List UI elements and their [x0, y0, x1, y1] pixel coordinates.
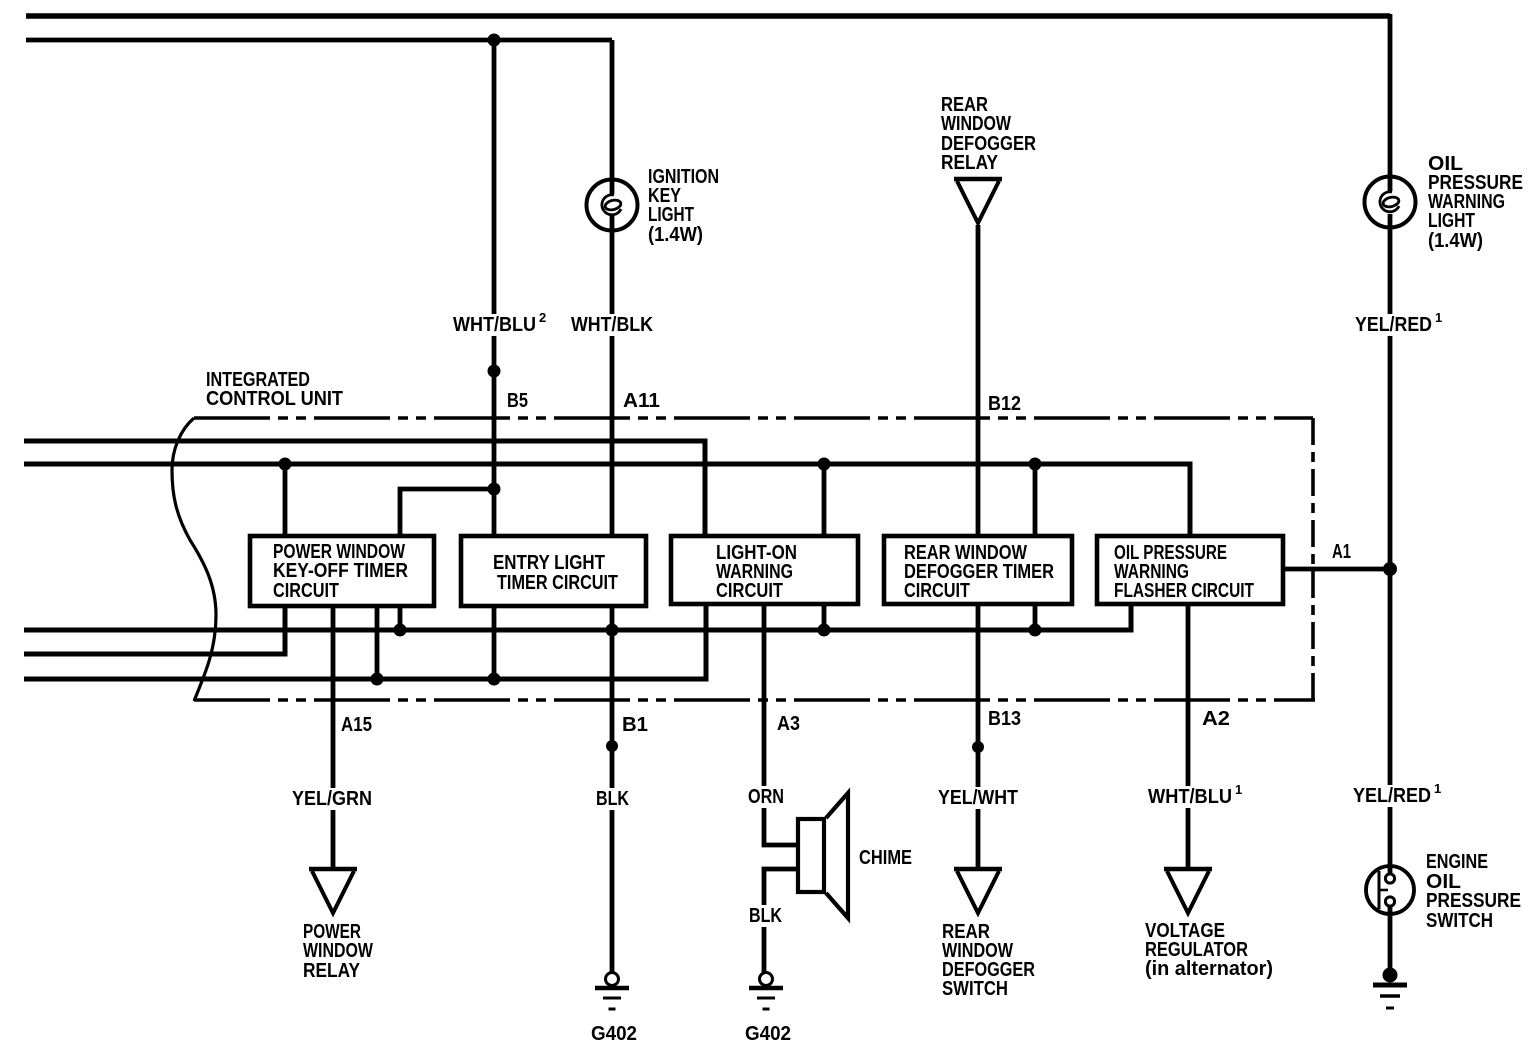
svg-text:TIMER CIRCUIT: TIMER CIRCUIT — [497, 572, 618, 594]
node line E / power window — [371, 673, 384, 686]
svg-text:B12: B12 — [988, 393, 1021, 415]
svg-text:PRESSURE: PRESSURE — [1426, 890, 1521, 912]
svg-text:1: 1 — [1235, 782, 1242, 797]
wire A1 oil pressure box to main vertical — [1285, 567, 1390, 572]
label wire BLK (chime) — [746, 905, 785, 927]
svg-text:YEL/WHT: YEL/WHT — [938, 787, 1018, 809]
ground G402 right (chime BLK) — [749, 973, 783, 1010]
wire WHT/BLU B5 — [492, 40, 497, 489]
switch engine oil pressure — [1366, 866, 1414, 914]
JUNCTION-DOTS — [279, 34, 1398, 754]
wire line B tap to power window box — [283, 464, 288, 536]
wire A3 light-on box to chime — [764, 606, 798, 845]
svg-text:G402: G402 — [591, 1023, 637, 1045]
lamp oil pressure warning light — [1365, 177, 1416, 228]
wire power window box to line E — [375, 606, 380, 679]
wire power window box to line C — [398, 606, 403, 630]
box power window key-off timer circuit — [250, 536, 434, 606]
svg-text:SWITCH: SWITCH — [942, 978, 1008, 1000]
svg-text:CIRCUIT: CIRCUIT — [716, 580, 783, 602]
wire YEL/RED main vertical — [1388, 14, 1393, 191]
label wire WHT/BLU 1 — [1145, 786, 1245, 808]
svg-text:A3: A3 — [777, 713, 800, 735]
node line C / B1 — [606, 624, 619, 637]
node line C / defogger — [1029, 624, 1042, 637]
node B5 jog — [488, 483, 501, 496]
wire line B tap to defogger timer box — [1033, 464, 1038, 536]
svg-text:(in alternator): (in alternator) — [1145, 958, 1273, 980]
svg-text:CIRCUIT: CIRCUIT — [904, 580, 970, 602]
svg-text:WHT/BLU: WHT/BLU — [1148, 786, 1232, 808]
box entry light timer circuit — [461, 536, 646, 606]
ICU boundary right dash-dot — [1311, 418, 1315, 700]
svg-text:A1: A1 — [1332, 541, 1351, 563]
node line C / light-on — [818, 624, 831, 637]
svg-text:CIRCUIT: CIRCUIT — [273, 580, 339, 602]
wire B5 to entry light box — [492, 489, 497, 536]
svg-text:KEY-OFF TIMER: KEY-OFF TIMER — [273, 560, 408, 582]
connector triangle power window relay — [309, 869, 357, 913]
svg-text:B5: B5 — [507, 390, 528, 412]
node A1 on main vertical — [1383, 562, 1397, 576]
node line C / power window — [394, 624, 407, 637]
svg-text:CONTROL UNIT: CONTROL UNIT — [206, 388, 343, 410]
svg-text:SWITCH: SWITCH — [1426, 910, 1493, 932]
wire WHT/BLK ignition key light — [610, 40, 615, 194]
connector triangle rear window defogger switch — [954, 869, 1002, 913]
wire bus line D — [24, 606, 285, 654]
svg-text:1: 1 — [1435, 310, 1442, 325]
chime speaker — [798, 793, 848, 918]
svg-text:YEL/RED: YEL/RED — [1355, 314, 1432, 336]
INTEGRATED-CONTROL-UNIT-BOUNDARY — [172, 418, 1315, 701]
svg-text:BLK: BLK — [596, 788, 629, 810]
wire chime to ground BLK — [764, 869, 798, 972]
svg-text:RELAY: RELAY — [303, 960, 361, 982]
ground engine oil pressure switch — [1373, 968, 1407, 1008]
svg-text:CHIME: CHIME — [859, 847, 912, 869]
node line E / entry light — [488, 673, 501, 686]
wire line B tap to light-on box — [822, 464, 827, 536]
connector triangle voltage regulator — [1164, 869, 1212, 913]
wire B12 relay to defogger timer box — [976, 225, 981, 535]
ICU boundary top dash-dot — [194, 416, 1313, 420]
svg-text:ENTRY LIGHT: ENTRY LIGHT — [493, 552, 605, 574]
svg-text:RELAY: RELAY — [941, 152, 999, 174]
svg-text:G402: G402 — [745, 1023, 791, 1045]
wire light-on box to line C — [822, 606, 827, 630]
label wire YEL/GRN — [289, 788, 375, 810]
wire B13 defogger timer box to switch — [976, 606, 981, 868]
box rear window defogger timer circuit — [884, 536, 1072, 604]
box oil pressure warning flasher circuit — [1097, 536, 1283, 604]
label wire WHT/BLU 2 — [450, 314, 552, 336]
svg-text:WHT/BLU: WHT/BLU — [453, 314, 536, 336]
svg-text:FLASHER CIRCUIT: FLASHER CIRCUIT — [1114, 580, 1254, 602]
svg-text:WHT/BLK: WHT/BLK — [571, 314, 653, 336]
label wire YEL/RED 1 top — [1352, 314, 1445, 336]
node splice on B13 wire — [972, 741, 984, 753]
wire top bus 2 — [26, 38, 612, 43]
wire A2 oil pressure box to voltage regulator — [1186, 605, 1191, 868]
wire entry light box to line E — [492, 606, 497, 679]
wire bus line E — [24, 606, 706, 679]
wire bus line C — [24, 605, 1131, 630]
svg-text:LIGHT: LIGHT — [648, 204, 694, 226]
box light-on warning circuit — [671, 536, 858, 604]
TEXT-LABELS — [206, 94, 1523, 1045]
svg-text:LIGHT: LIGHT — [1428, 210, 1475, 232]
svg-text:B13: B13 — [988, 708, 1021, 730]
svg-text:YEL/RED: YEL/RED — [1353, 785, 1431, 807]
svg-text:(1.4W): (1.4W) — [648, 224, 703, 246]
label wire ORN — [745, 786, 787, 808]
svg-text:WINDOW: WINDOW — [303, 940, 373, 962]
wire defogger timer box to line C — [1033, 606, 1038, 630]
svg-text:A11: A11 — [623, 390, 660, 412]
label wire YEL/WHT — [935, 787, 1021, 809]
node line B / power window tap — [279, 458, 292, 471]
svg-text:2: 2 — [539, 310, 546, 325]
svg-text:WINDOW: WINDOW — [941, 113, 1011, 135]
connector triangle rear window defogger relay — [954, 179, 1002, 223]
svg-text:A2: A2 — [1202, 708, 1230, 730]
wire B1 entry box to ground — [610, 606, 615, 972]
wire bus line B — [24, 464, 1190, 536]
svg-text:BLK: BLK — [749, 905, 782, 927]
wire jog B5 to power window box — [400, 489, 494, 536]
lamp ignition key light — [587, 180, 638, 231]
wire top bus 1 (hot feed) — [26, 13, 1390, 19]
node on top bus 2 at WHT/BLU — [488, 34, 501, 47]
ICU boundary bottom dash-dot — [194, 698, 1315, 702]
CIRCUIT-BOXES — [250, 536, 1283, 606]
ICU boundary left torn edge curve — [172, 418, 216, 701]
node line B / defogger tap — [1029, 458, 1042, 471]
svg-text:B1: B1 — [622, 714, 648, 736]
node splice on WHT/BLU wire — [488, 365, 501, 378]
svg-text:YEL/GRN: YEL/GRN — [292, 788, 372, 810]
label wire WHT/BLK — [568, 314, 656, 336]
svg-text:ENGINE: ENGINE — [1426, 851, 1488, 873]
label wire BLK (B1) — [593, 788, 632, 810]
svg-text:ORN: ORN — [748, 786, 784, 808]
wire power window box to A15 — [331, 606, 336, 868]
ground G402 left (B1) — [595, 973, 629, 1010]
wire bus line A — [24, 441, 705, 536]
svg-text:(1.4W): (1.4W) — [1428, 230, 1483, 252]
svg-text:1: 1 — [1434, 781, 1441, 796]
node splice on B1 wire — [606, 740, 618, 752]
node line B / light-on tap — [818, 458, 831, 471]
label wire YEL/RED 1 bottom — [1350, 785, 1444, 807]
svg-text:A15: A15 — [341, 714, 372, 736]
